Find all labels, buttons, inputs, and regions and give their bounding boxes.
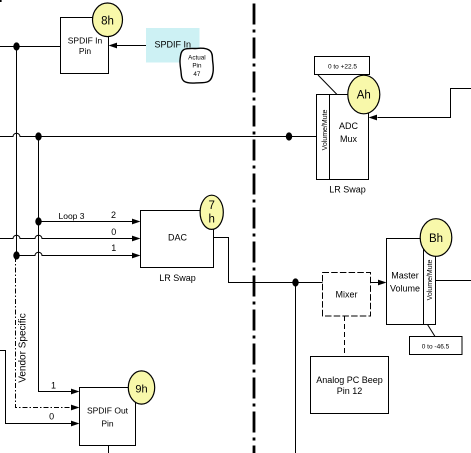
svg-text:LR Swap: LR Swap [159, 273, 196, 283]
svg-text:8h: 8h [101, 16, 114, 28]
svg-text:1: 1 [111, 243, 116, 253]
svg-text:Volume: Volume [390, 284, 420, 294]
svg-text:2: 2 [111, 210, 116, 220]
svg-text:DAC: DAC [168, 233, 188, 243]
svg-text:SPDIF In: SPDIF In [68, 36, 103, 46]
svg-text:Pin 12: Pin 12 [337, 386, 363, 396]
svg-text:Pin: Pin [192, 63, 202, 70]
svg-text:Actual: Actual [188, 55, 206, 62]
svg-text:Ah: Ah [357, 89, 371, 101]
svg-text:SPDIF Out: SPDIF Out [87, 406, 129, 416]
svg-text:0 to -46.5: 0 to -46.5 [422, 344, 450, 351]
svg-text:Vendor Specific: Vendor Specific [18, 313, 29, 383]
svg-text:0 to +22.5: 0 to +22.5 [328, 64, 357, 71]
svg-text:Loop 3: Loop 3 [59, 211, 85, 221]
svg-text:Mux: Mux [340, 134, 358, 144]
svg-text:Volume/Mute: Volume/Mute [427, 259, 434, 300]
svg-text:Pin: Pin [79, 46, 92, 56]
svg-text:9h: 9h [135, 383, 147, 395]
svg-text:1: 1 [51, 381, 56, 391]
svg-text:0: 0 [49, 412, 54, 422]
svg-text:Volume/Mute: Volume/Mute [322, 109, 329, 150]
svg-text:Pin: Pin [101, 419, 114, 429]
svg-text:SPDIF In: SPDIF In [155, 40, 192, 50]
svg-text:Mixer: Mixer [336, 290, 358, 300]
svg-text:7: 7 [208, 200, 214, 212]
svg-text:LR Swap: LR Swap [329, 185, 366, 195]
svg-text:Master: Master [391, 271, 419, 281]
svg-text:ADC: ADC [339, 121, 359, 131]
svg-text:Bh: Bh [429, 233, 443, 245]
svg-text:h: h [208, 214, 214, 226]
svg-text:0: 0 [111, 227, 116, 237]
svg-text:47: 47 [193, 71, 201, 78]
svg-text:Analog PC Beep: Analog PC Beep [316, 375, 383, 385]
